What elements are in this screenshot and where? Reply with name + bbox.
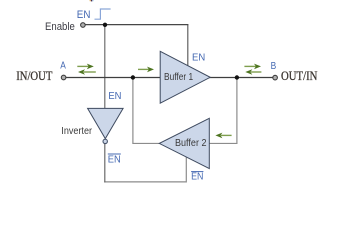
svg-text:Buffer 2: Buffer 2 bbox=[175, 137, 207, 149]
svg-text:EN: EN bbox=[191, 172, 203, 183]
svg-text:EN: EN bbox=[108, 91, 121, 102]
svg-text:B: B bbox=[271, 61, 277, 72]
svg-text:Inverter: Inverter bbox=[61, 126, 92, 137]
svg-text:IN/OUT: IN/OUT bbox=[16, 68, 52, 83]
svg-text:Enable: Enable bbox=[45, 21, 75, 33]
svg-text:EN: EN bbox=[108, 154, 121, 165]
svg-text:A: A bbox=[60, 61, 66, 72]
svg-text:OUT/IN: OUT/IN bbox=[281, 68, 318, 83]
svg-text:EN: EN bbox=[192, 52, 205, 64]
svg-text:EN: EN bbox=[77, 9, 91, 21]
svg-text:Buffer 1: Buffer 1 bbox=[164, 72, 194, 83]
